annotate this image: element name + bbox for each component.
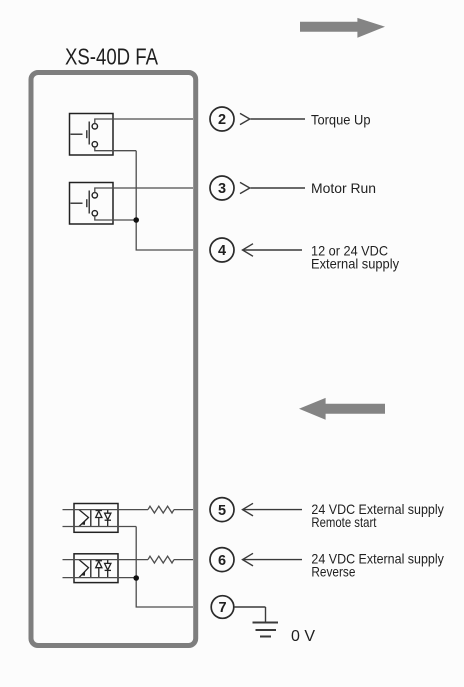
svg-text:External supply: External supply <box>311 255 399 271</box>
svg-text:0 V: 0 V <box>291 628 315 645</box>
svg-text:4: 4 <box>218 243 226 259</box>
svg-text:Remote start: Remote start <box>311 514 376 530</box>
svg-text:7: 7 <box>218 600 226 616</box>
svg-text:Reverse: Reverse <box>311 564 355 580</box>
svg-text:XS-40D FA: XS-40D FA <box>65 44 159 70</box>
svg-text:6: 6 <box>218 553 226 569</box>
svg-text:Torque Up: Torque Up <box>311 112 371 128</box>
svg-text:5: 5 <box>218 503 226 519</box>
svg-text:Motor Run: Motor Run <box>311 180 376 196</box>
svg-text:3: 3 <box>218 181 226 197</box>
svg-text:2: 2 <box>218 112 226 128</box>
